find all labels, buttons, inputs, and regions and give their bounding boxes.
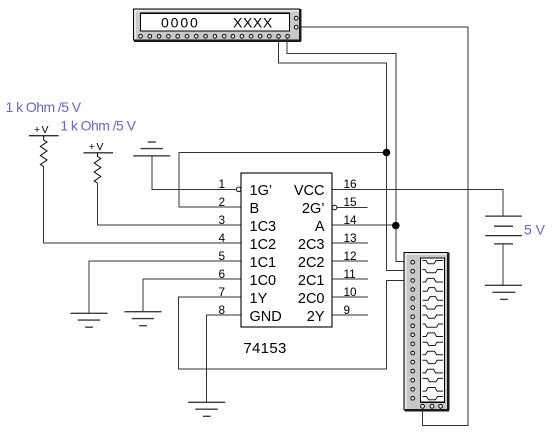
svg-text:GND: GND (250, 309, 282, 325)
svg-text:1C3: 1C3 (250, 219, 277, 235)
svg-text:5 V: 5 V (524, 222, 546, 238)
svg-text:4: 4 (218, 231, 225, 245)
svg-text:5: 5 (218, 249, 225, 263)
svg-text:3: 3 (218, 213, 225, 227)
svg-text:7: 7 (218, 285, 225, 299)
svg-text:2C1: 2C1 (298, 273, 325, 289)
wire: pin 5 to ground (89, 261, 241, 313)
resistor R1 1 kOhm (40, 136, 47, 167)
svg-text:8: 8 (218, 303, 225, 317)
junction dot net B (383, 149, 391, 157)
wire: net B - word gen output to vertical, to logic analyzer terminal 2 (279, 38, 404, 271)
word generator XWG1 (top display device) (134, 9, 302, 41)
ground at pin 8 (188, 402, 225, 416)
svg-text:1G’: 1G’ (250, 183, 273, 199)
svg-text:1C2: 1C2 (250, 237, 277, 253)
svg-text:16: 16 (344, 177, 358, 191)
svg-text:0000: 0000 (161, 14, 200, 30)
svg-text:+V: +V (34, 124, 50, 136)
svg-text:B: B (250, 201, 260, 217)
svg-text:74153: 74153 (243, 340, 286, 357)
IC U1 74153 body (241, 173, 332, 327)
svg-text:2C0: 2C0 (298, 291, 325, 307)
battery V1 5V (485, 216, 522, 244)
U1 right pin numbers 16-9 (344, 177, 358, 317)
pin 1 inverter bubble (236, 187, 241, 192)
wire: battery to ground (502, 244, 504, 285)
ground at pin 5 (70, 313, 107, 327)
pin 13 stub (332, 242, 368, 244)
svg-text:2Y: 2Y (307, 309, 325, 325)
svg-text:A: A (315, 219, 325, 235)
logic analyzer XLA1 (right device) (404, 253, 449, 411)
U1 left pin labels (250, 183, 282, 325)
wire: VCC pin 16 to battery (332, 189, 503, 216)
svg-text:2C2: 2C2 (298, 255, 325, 271)
ground at pin 6 (124, 312, 161, 326)
wire: ground to pin 1 (152, 156, 236, 190)
svg-text:1C1: 1C1 (250, 255, 277, 271)
U1 left pin numbers 1-8 (218, 177, 225, 317)
wire: pin 8 (GND) to ground (207, 315, 241, 402)
ground at battery (485, 285, 522, 299)
svg-text:1 k Ohm /5 V: 1 k Ohm /5 V (6, 99, 82, 115)
svg-text:VCC: VCC (294, 183, 325, 199)
svg-text:XXXX: XXXX (233, 14, 273, 30)
wire: net B branch to pin 2 of U1 (179, 153, 387, 208)
svg-text:2G’: 2G’ (302, 201, 325, 217)
junction dot net A (392, 222, 400, 230)
wire: R2 to pin 3 (98, 183, 242, 225)
wire: pin 6 to ground (143, 279, 241, 312)
svg-text:2: 2 (218, 195, 225, 209)
svg-text:1Y: 1Y (250, 291, 268, 307)
svg-text:6: 6 (218, 267, 225, 281)
svg-text:+V: +V (89, 141, 105, 153)
resistor R2 1 kOhm (94, 153, 101, 183)
pin 15 bubble and stub (332, 205, 337, 210)
svg-text:15: 15 (344, 195, 358, 209)
svg-text:14: 14 (344, 213, 358, 227)
pin 9 stub (332, 314, 368, 316)
svg-text:1 k Ohm /5 V: 1 k Ohm /5 V (60, 117, 136, 133)
wire: net A branch to pin 14 of U1 (332, 224, 396, 226)
wire: net A - word gen output to vertical, to logic analyzer terminal 1 (287, 38, 404, 262)
svg-text:2C3: 2C3 (298, 237, 325, 253)
pin 10 stub (332, 296, 368, 298)
wire: pin 7 (1Y) to logic analyzer terminal 3 (179, 280, 404, 369)
wire: word generator clock to logic analyzer bottom terminal (300, 27, 468, 425)
pin 12 stub (332, 260, 368, 262)
pin 11 stub (332, 278, 368, 280)
U1 right pin labels (294, 183, 325, 325)
ground (inverted) at pin 1 (133, 142, 170, 156)
svg-text:1C0: 1C0 (250, 273, 277, 289)
wire: R1 to pin 4 (44, 167, 241, 243)
svg-text:1: 1 (218, 177, 225, 191)
